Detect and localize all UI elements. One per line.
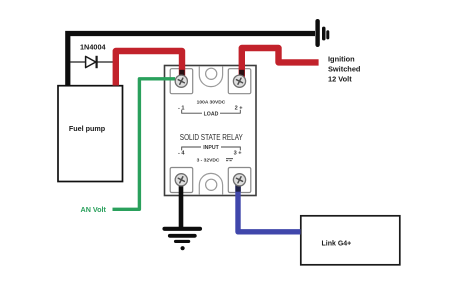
svg-text:3 +: 3 +: [234, 150, 243, 156]
svg-text:Fuel pump: Fuel pump: [69, 124, 106, 133]
svg-text:2 +: 2 +: [235, 106, 244, 112]
svg-text:INPUT: INPUT: [203, 145, 219, 151]
svg-text:LOAD: LOAD: [204, 112, 219, 118]
svg-text:1N4004: 1N4004: [80, 43, 107, 52]
svg-text:100A 30VDC: 100A 30VDC: [197, 99, 226, 105]
svg-text:AN Volt: AN Volt: [81, 205, 107, 214]
svg-text:Link G4+: Link G4+: [322, 241, 352, 248]
svg-text:- 4: - 4: [178, 150, 185, 156]
svg-text:12 Volt: 12 Volt: [328, 75, 352, 84]
svg-text:SOLID STATE RELAY: SOLID STATE RELAY: [180, 133, 244, 142]
svg-text:Switched: Switched: [328, 65, 361, 74]
svg-text:Ignition: Ignition: [328, 54, 355, 63]
svg-text:3 - 32VDC: 3 - 32VDC: [197, 158, 220, 164]
